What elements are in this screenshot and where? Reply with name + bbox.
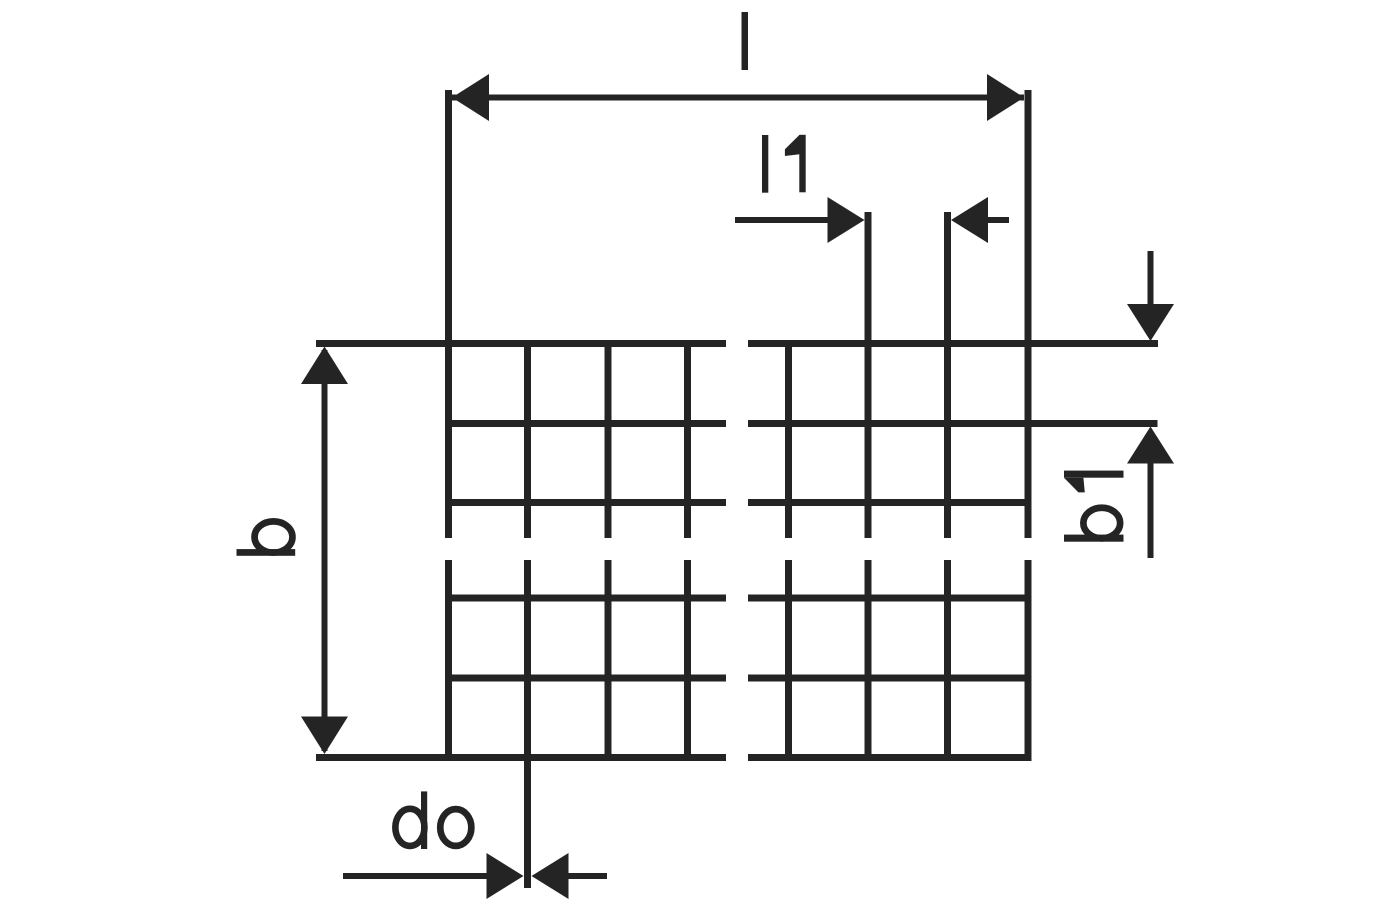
wire V1 (left edge, extended up for l) <box>445 90 452 761</box>
wire H5 <box>445 675 1032 682</box>
wire H6 (bottom mesh wire, extended left for b) <box>316 754 1032 761</box>
label l1 <box>762 135 806 193</box>
dimension line l <box>452 95 1024 101</box>
dimension line b1 upper <box>1148 251 1154 305</box>
wire V6 (extended up for l1) <box>865 212 872 761</box>
wire H2 (second mesh wire, extended right for b1) <box>445 420 1158 427</box>
label b1 (rotated) <box>1064 471 1124 542</box>
arrowhead l1 left-pointing <box>951 197 988 243</box>
arrowhead l right <box>987 74 1024 121</box>
dimension line l1 right tail <box>988 217 1009 223</box>
dimension line b <box>322 350 328 751</box>
dimension line do left tail <box>343 873 487 879</box>
arrowhead b1 up <box>1127 427 1174 464</box>
label do <box>421 791 427 849</box>
arrowhead l left <box>452 74 489 121</box>
wire V8 (right edge, extended up for l) <box>1025 90 1032 761</box>
arrowhead b up <box>301 347 348 385</box>
dimension line l1 left tail <box>735 217 829 223</box>
wire H4 <box>445 595 1032 602</box>
wire H1 (top mesh wire, extended left and right as extension line) <box>316 340 1158 347</box>
wire V5 <box>785 340 792 761</box>
wire V4 <box>684 340 691 761</box>
label b (rotated) <box>237 549 296 556</box>
wire H3 <box>445 499 1032 506</box>
dimension line b1 lower <box>1148 463 1154 558</box>
wire V7 (extended up for l1) <box>944 212 951 761</box>
dimension line do right tail <box>569 873 608 879</box>
arrowhead b1 down <box>1127 304 1174 341</box>
wire V2 (extended down for do) <box>524 340 531 888</box>
arrowhead do left-pointing <box>532 853 569 899</box>
label l <box>742 12 749 70</box>
arrowhead l1 right-pointing <box>828 197 865 243</box>
wire V3 <box>605 340 612 761</box>
arrowhead do right-pointing <box>487 853 524 899</box>
arrowhead b down <box>301 717 348 755</box>
